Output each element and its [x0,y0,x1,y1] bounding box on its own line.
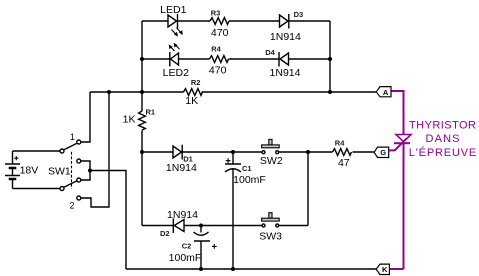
switch SW1 mechanical link (dashed) [71,152,73,189]
resistor R4 47 (gate) [333,149,352,156]
svg-text:100mF: 100mF [169,252,202,264]
node right rail / bus [328,90,332,94]
wire throw1 up to bus [81,92,90,142]
svg-text:K: K [382,265,388,274]
thyristor (device under test) [396,135,411,142]
pushbutton SW3 [262,213,280,227]
battery B1 18V [5,151,20,189]
svg-text:18V: 18V [20,164,39,176]
svg-text:D4: D4 [265,48,275,57]
wire branch2 [142,58,330,60]
switch SW1 pole contact bottom [60,187,64,191]
svg-text:R4: R4 [211,45,221,54]
svg-text:R4: R4 [335,138,345,147]
wire battery bottom to SW1 pole 2 [13,188,61,190]
node left rail / D1 branch [140,150,144,154]
terminal K tag [376,264,389,274]
node right rail / branch2 [328,57,332,61]
svg-text:1N914: 1N914 [166,162,197,174]
svg-text:LED1: LED1 [160,4,186,16]
wire D1 branch [142,151,374,153]
node left rail / branch2 [140,57,144,61]
resistor R3 470 [210,18,229,25]
svg-text:1: 1 [70,132,75,142]
switch SW1 pole contact top [60,149,64,153]
svg-text:1K: 1K [185,95,198,107]
thyristor gate lead to G (purple) [389,139,407,151]
wire right rail [329,21,331,92]
node throw2/bus junction [107,90,111,94]
svg-text:1N914: 1N914 [270,31,301,43]
switch SW1 throw contact 1 [77,140,81,144]
svg-text:SW2: SW2 [260,155,283,167]
svg-text:LED2: LED2 [163,67,189,79]
resistor R1 1K (vertical) [139,111,146,130]
wire D2 branch [142,225,308,227]
svg-text:C2: C2 [182,242,192,251]
wire left rail [141,21,143,226]
svg-text:2: 2 [69,201,74,211]
node C1 top junction [231,150,235,154]
capacitor C2 100mF [194,226,217,270]
resistor R2 1K [184,89,203,96]
svg-text:C1: C1 [242,164,252,173]
svg-text:D3: D3 [294,10,304,19]
capacitor C1 100mF [225,152,241,269]
node C1 bottom / rail [231,267,235,271]
svg-text:470: 470 [209,64,227,76]
svg-text:SW1: SW1 [48,165,71,177]
svg-text:470: 470 [211,27,229,39]
node C2 top junction [199,224,203,228]
wire bus to terminal A [330,91,376,93]
LED1 [168,14,183,37]
wire bus horizontal [90,91,330,93]
LED2 [169,43,180,67]
svg-text:L'ÉPREUVE: L'ÉPREUVE [409,146,477,159]
svg-text:SW3: SW3 [259,230,282,242]
wire bottom rail [126,268,376,270]
wire bracket joining mid throws [81,161,90,180]
wire battery top to SW1 pole 1 [13,150,61,152]
wire bracket junction to bottom rail [90,171,126,270]
terminal A tag [376,87,391,97]
svg-text:1K: 1K [123,114,136,126]
thyristor cathode lead to K (purple) [390,143,404,269]
diode D4 1N914 [279,52,289,67]
svg-text:R2: R2 [191,78,201,87]
svg-text:G: G [380,148,386,157]
node bracket junction [88,169,92,173]
svg-text:100mF: 100mF [233,174,266,186]
resistor R4 470 [210,56,229,63]
svg-text:R3: R3 [211,8,221,17]
svg-text:1N914: 1N914 [270,67,301,79]
node SW2 right junction [306,150,310,154]
terminal G tag [374,147,389,157]
switch SW1 throw contact 2 [77,196,81,200]
switch SW1 lever top [64,143,77,150]
svg-text:A: A [383,88,389,97]
svg-text:THYRISTOR: THYRISTOR [409,120,476,132]
node left rail / bus [140,90,144,94]
switch SW1 throw contact mid-bottom [77,178,81,182]
diode D3 1N914 [280,14,289,29]
svg-text:R1: R1 [146,108,156,117]
node C2 bottom / rail [199,267,203,271]
svg-text:DANS: DANS [426,133,460,145]
diode D1 1N914 [173,145,182,160]
switch SW1 throw contact mid-top [77,159,81,163]
svg-text:47: 47 [338,157,350,169]
wire branch1 [142,20,330,22]
pushbutton SW2 [262,139,280,153]
diode D2 1N914 [173,219,184,234]
switch SW1 lever bottom [64,181,77,188]
label THYRISTOR DANS L'EPREUVE [409,120,477,160]
svg-text:D2: D2 [160,229,170,238]
wire SW2 to SW3 vertical [307,152,309,226]
wire throw2 up to bus [81,92,109,207]
wire A to thyristor anode (purple) [392,91,404,134]
svg-text:1N914: 1N914 [167,209,198,221]
